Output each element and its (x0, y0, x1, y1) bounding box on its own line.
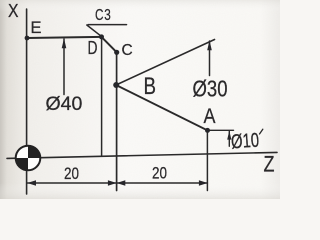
svg-text:Ø30: Ø30 (193, 75, 228, 101)
X axis line (26, 9, 28, 194)
Ø30 dimension arrow line (209, 41, 211, 76)
extension line below A (206, 130, 208, 190)
Ø10 extension line from A (208, 129, 234, 131)
svg-text:C: C (122, 42, 133, 59)
svg-text:B: B (144, 73, 157, 100)
svg-text:A: A (204, 105, 216, 128)
point dot E (25, 36, 30, 41)
svg-text:X: X (8, 1, 19, 21)
svg-text:20: 20 (152, 164, 167, 183)
point dot D (99, 34, 104, 39)
svg-text:Z: Z (264, 152, 275, 177)
point dot A (205, 128, 210, 133)
Ø10 dimension arrow line (228, 131, 230, 146)
extension line below D (101, 37, 103, 156)
svg-text:E: E (31, 19, 42, 37)
bottom dim arrowhead middle pointing left (117, 180, 126, 185)
Z axis line (7, 152, 277, 158)
svg-text:D: D (88, 38, 98, 58)
origin symbol (workpiece zero) (16, 146, 41, 171)
profile segment E-D (27, 37, 102, 38)
Ø30 arrowhead (207, 40, 212, 50)
cone surface line from B up-right (Ø30 reference) (116, 40, 215, 86)
svg-text:C3: C3 (95, 7, 112, 24)
point dot B (113, 82, 119, 88)
svg-text:Ø10: Ø10 (230, 130, 259, 154)
bottom dim arrowhead left (tip at X axis) (27, 180, 36, 185)
Ø40 dimension arrow line (63, 39, 65, 95)
chamfer segment D-C (102, 37, 117, 52)
bottom dimension line 20+20 (28, 182, 208, 184)
C3 leader horizontal (88, 24, 127, 26)
point dot C (114, 50, 119, 55)
bottom dim arrowhead right (tip at A extension) (199, 180, 208, 185)
stray tick above "10" of Ø10 (260, 129, 263, 134)
Ø40 arrowhead (62, 38, 67, 48)
profile segment C-B and extension line below B (116, 52, 118, 190)
bottom dim arrowhead middle pointing right (108, 180, 117, 185)
svg-text:20: 20 (64, 164, 79, 183)
Ø10 arrowhead (227, 131, 231, 140)
profile segment B-A (116, 85, 208, 130)
svg-text:Ø40: Ø40 (46, 93, 83, 115)
C3 leader diagonal (87, 25, 102, 36)
